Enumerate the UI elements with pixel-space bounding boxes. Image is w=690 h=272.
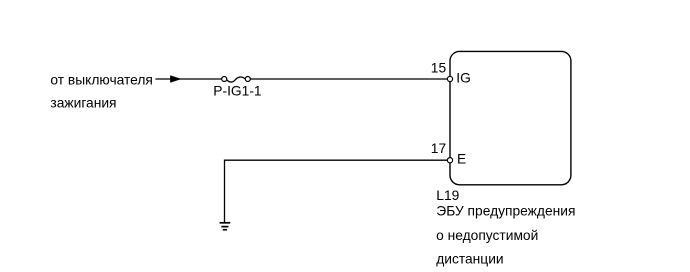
svg-text:15: 15	[431, 61, 447, 76]
svg-text:P-IG1-1: P-IG1-1	[213, 83, 261, 98]
svg-text:ЭБУ предупреждения: ЭБУ предупреждения	[436, 204, 575, 219]
svg-text:17: 17	[431, 141, 446, 156]
svg-text:о недопустимой: о недопустимой	[436, 228, 538, 243]
svg-text:E: E	[457, 151, 466, 166]
svg-text:L19: L19	[436, 188, 459, 203]
svg-text:IG: IG	[456, 71, 471, 86]
svg-text:дистанции: дистанции	[436, 252, 503, 267]
svg-text:от выключателя: от выключателя	[50, 73, 153, 88]
svg-text:зажигания: зажигания	[50, 96, 116, 111]
